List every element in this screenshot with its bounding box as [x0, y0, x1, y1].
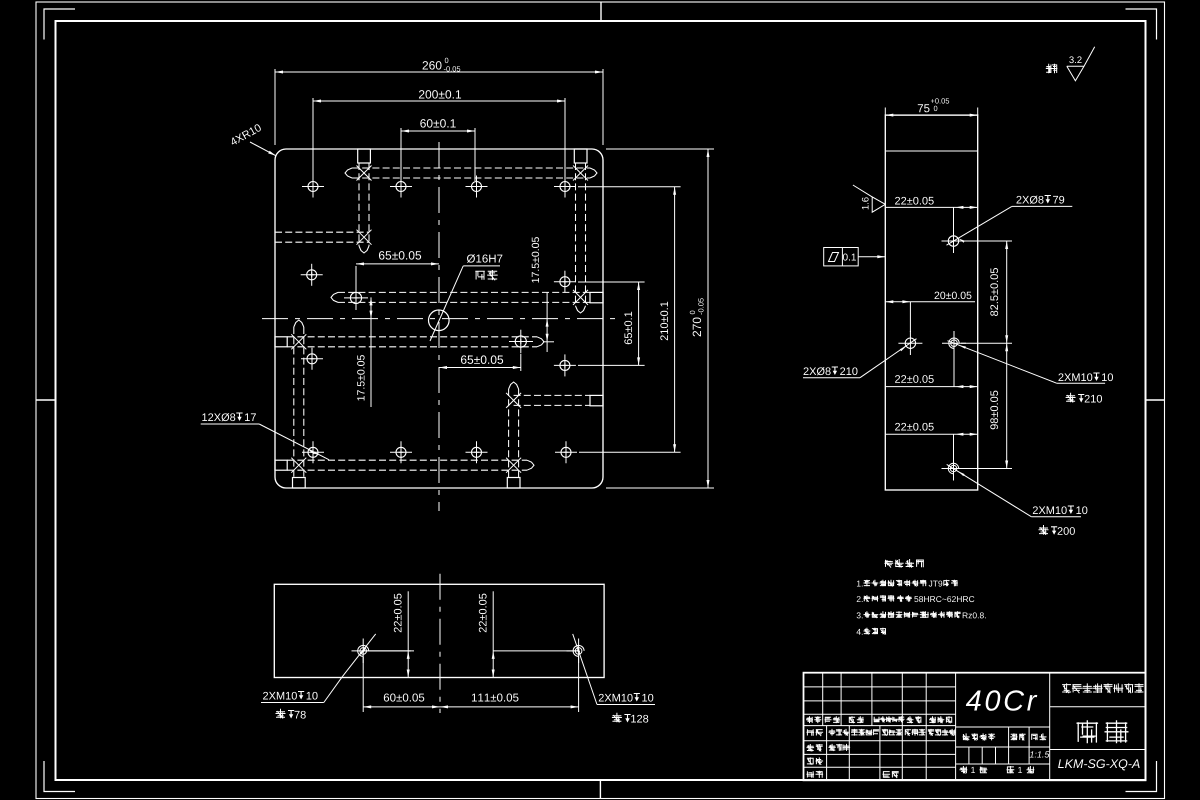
side view dim 22±0.05 bottom	[895, 423, 934, 431]
main view plate outline (260x270 plate)	[275, 149, 603, 488]
dimension 210±0.1	[674, 187, 676, 453]
technical note line 2	[857, 596, 863, 602]
bottom view label leader left	[324, 677, 343, 703]
title block drawing number LKM-SG-XQ-A	[1058, 759, 1140, 770]
dimension 270-0.05 extension lines	[606, 148, 714, 150]
label 4XR10 with leader	[229, 123, 262, 146]
screw hole row3 left	[307, 354, 317, 364]
side view flatness tolerance frame	[824, 248, 859, 266]
screw hole row3 right	[560, 360, 570, 370]
cooling channel H3 (upper middle horizontal)	[338, 291, 590, 293]
cooling channel V4 crossing with H5	[506, 458, 521, 473]
title block left table vertical lines upper rows	[822, 673, 824, 726]
bottom view label 2XM10 depth10 right	[599, 694, 633, 702]
title block jieduanbiaoji (stage mark) text	[963, 733, 996, 740]
frame centering mark left	[36, 399, 56, 401]
side view dim 20±0.05 mid	[935, 292, 972, 299]
bottom view label hole depth 128 right	[612, 713, 622, 723]
cooling channel V3 top cap	[294, 320, 304, 327]
cooling channel V4 crossing with H6	[506, 393, 521, 408]
cooling channel H5 left edge inlet fitting	[275, 460, 287, 470]
title block sheet count: gong 1 zhang	[960, 766, 968, 774]
title block bili (scale) text	[1031, 733, 1046, 740]
title block left table vertical lines lower rows	[826, 726, 828, 781]
bottom view label 2XM10 depth10 left	[263, 692, 297, 700]
screw hole row2 left	[307, 270, 317, 280]
label Φ16H7 through-hole with leader	[467, 254, 502, 263]
side view label 2XΦ8 depth210 with leader	[804, 367, 831, 375]
frame centering mark bottom	[599, 780, 601, 799]
bottom view hole left leader slash with diameter arrows	[342, 634, 375, 677]
screw hole row1 #2	[396, 182, 406, 192]
cooling channel V2 (right-top vertical)	[575, 163, 577, 306]
side view outline	[885, 115, 977, 490]
title block sheji (design) row texts	[807, 729, 824, 736]
cooling channel H1 (top horizontal)	[352, 167, 590, 169]
label 12XΦ8 depth17 with leader and underline	[202, 413, 235, 421]
side view hole mid-right (2xM10 depth10)	[951, 340, 958, 347]
bottom view dim 22±0.05 right	[493, 650, 578, 652]
cooling channel V2 crossing with H3	[573, 290, 588, 305]
cooling channel H4 (lower middle horizontal)	[287, 336, 537, 338]
dimension 65±0.05 lower	[520, 354, 522, 371]
side view hole mid-left (2xΦ8 depth210)	[905, 338, 915, 348]
side view flatness leader	[858, 256, 885, 258]
cooling channel V1 top inlet notch	[358, 149, 371, 163]
side view label 2XM10 depth10 / hole depth210 with leader	[1058, 373, 1092, 381]
side view top step line	[885, 150, 977, 152]
dimension 60±0.1 extension lines	[400, 128, 402, 181]
cooling channel H5 (bottom horizontal)	[287, 459, 527, 461]
title block gongyi (process) row texts	[807, 771, 824, 778]
dimension 210±0.1 extension lines	[578, 186, 681, 188]
side view label 2XΦ8 depth79 with leader	[1016, 196, 1043, 204]
side view dim 75 +0.05/0	[884, 108, 886, 116]
technical note line 3	[857, 612, 863, 618]
bottom view outline	[274, 584, 604, 677]
leader line for phi16H7	[430, 266, 463, 341]
general roughness symbol 3.2	[1067, 47, 1095, 81]
screw hole row4 #2	[396, 447, 406, 457]
title block shenhe (check) row text	[807, 757, 823, 764]
side view roughness symbol 1.6 on left edge	[853, 185, 885, 212]
title block stage mark boxes	[968, 747, 970, 764]
title block outline	[804, 673, 1146, 781]
bottom view tapped hole right M10	[575, 648, 582, 655]
dimension 17.5±0.05 right	[546, 292, 548, 352]
cooling channel V2 crossing with H1	[573, 166, 588, 181]
cooling channel V1 bottom cap	[359, 246, 369, 253]
screw hole row4 #3	[472, 447, 482, 457]
technical note line 4	[856, 629, 862, 635]
side view dim 82.5±0.05 extension lines	[960, 240, 1012, 242]
cooling channel H2 (left exit horizontal)	[275, 231, 369, 233]
frame corner mark top-left	[44, 9, 75, 40]
side view label 2XM10 depth10 / hole depth200 with leader	[1033, 506, 1067, 514]
cooling channel V4 top cap	[509, 382, 519, 389]
cooling channel V4 bottom edge notch	[507, 478, 520, 489]
technical requirements title	[884, 559, 924, 568]
screw hole row1 #4	[560, 182, 570, 192]
frame corner mark bottom-left	[44, 761, 75, 792]
screw hole row1 #1	[308, 182, 318, 192]
main view vertical centerline	[438, 142, 440, 511]
frame centering mark right	[1146, 399, 1165, 401]
bottom view vertical centerline	[439, 574, 441, 713]
dimension 270-0.05	[707, 149, 709, 488]
general roughness: qiyu (others) text	[1046, 64, 1058, 74]
bottom view label hole depth 78 left	[276, 709, 286, 719]
cooling channel V3 bottom edge notch	[293, 478, 306, 489]
side view dim 98±0.05	[960, 468, 1012, 470]
dimension 65±0.1 right side	[638, 282, 640, 365]
side view dim 22±0.05 top	[895, 197, 934, 205]
title block part name: xing qiang (cavity)	[1077, 720, 1099, 743]
screw hole row1 #3	[472, 182, 482, 192]
frame corner mark top-right	[1126, 9, 1157, 40]
screw hole row4 #4	[561, 447, 571, 457]
dimension 200±0.1 extension lines	[312, 98, 314, 181]
cooling channel H6 right edge notch	[590, 395, 603, 405]
title block right section dividers	[1050, 706, 1146, 708]
cooling channel V3 crossing with H5	[291, 458, 306, 473]
title block middle dividers	[956, 726, 1050, 728]
side view dim 82.5±0.05	[1006, 241, 1008, 343]
cooling channel V2 bottom cap	[576, 306, 586, 313]
dimension 260-0.05	[275, 71, 603, 73]
cooling channel H4 crossing with V3	[291, 334, 306, 349]
cooling channel H3 right edge notch	[590, 292, 603, 302]
cooling channel V1 crossing with H1	[357, 166, 372, 181]
side view hole top (2xΦ8 depth79)	[948, 236, 958, 246]
main view horizontal centerline	[262, 318, 619, 320]
title block left table horizontal lines	[804, 686, 956, 688]
dimension 17.5±0.05 left	[370, 297, 372, 407]
screw hole row2 right	[560, 277, 570, 287]
cooling channel H4 left edge inlet fitting	[275, 337, 287, 347]
frame centering mark top	[600, 2, 602, 21]
cooling channel V4 (right-bottom vertical)	[508, 389, 510, 477]
cooling channel H6 (right exit horizontal)	[514, 394, 590, 396]
dimension 60±0.1	[401, 130, 475, 132]
label tong-kong (through hole) text	[475, 270, 497, 280]
bottom view dim 22±0.05 left	[363, 650, 414, 652]
cooling channel V1 crossing with H2	[357, 230, 372, 245]
frame corner mark bottom-right	[1126, 761, 1157, 792]
bottom view tapped hole left M10	[360, 648, 367, 655]
dimension 65±0.05 upper	[355, 266, 357, 290]
dimension 200±0.1	[313, 100, 565, 102]
bottom view dim 111±0.05	[578, 657, 580, 712]
title block sheet number: di 1 zhang	[1007, 766, 1015, 773]
cooling channel V1 (left-top vertical)	[358, 163, 360, 246]
side view hole bottom (2xM10 depth10)	[950, 465, 957, 472]
technical note line 1	[857, 581, 863, 587]
water hole on channel H3	[350, 292, 361, 303]
dimension 65±0.1 right side extension lines	[578, 281, 645, 283]
dimension 260-0.05 extension lines	[274, 69, 276, 145]
bottom view dim 60±0.05	[362, 657, 364, 712]
title block zhitu (drafting) row texts	[807, 744, 823, 751]
side view dim 22±0.05 third	[895, 375, 934, 383]
center hole phi16H7	[429, 310, 450, 331]
title block main vertical dividers	[955, 673, 957, 781]
bottom view label leader right	[573, 634, 597, 705]
water hole on channel H4	[515, 336, 526, 347]
screw hole row4 #1	[308, 447, 318, 457]
cooling channel V2 top inlet notch	[574, 149, 587, 163]
title block scale value 1:1.5	[1030, 751, 1050, 757]
cooling channel V3 (left-bottom vertical)	[293, 327, 295, 477]
title block university name: Guilin University of Electronic Technology	[1062, 683, 1143, 693]
title block zhongliang (weight) text	[1010, 733, 1025, 740]
title block header row texts: biaoji chushu fenqu genggai wenjianhao qianming nianyueri	[806, 716, 821, 723]
title block material 40Cr	[966, 690, 1037, 711]
bottom view hole right leader slash with diameter arrows	[577, 646, 580, 653]
